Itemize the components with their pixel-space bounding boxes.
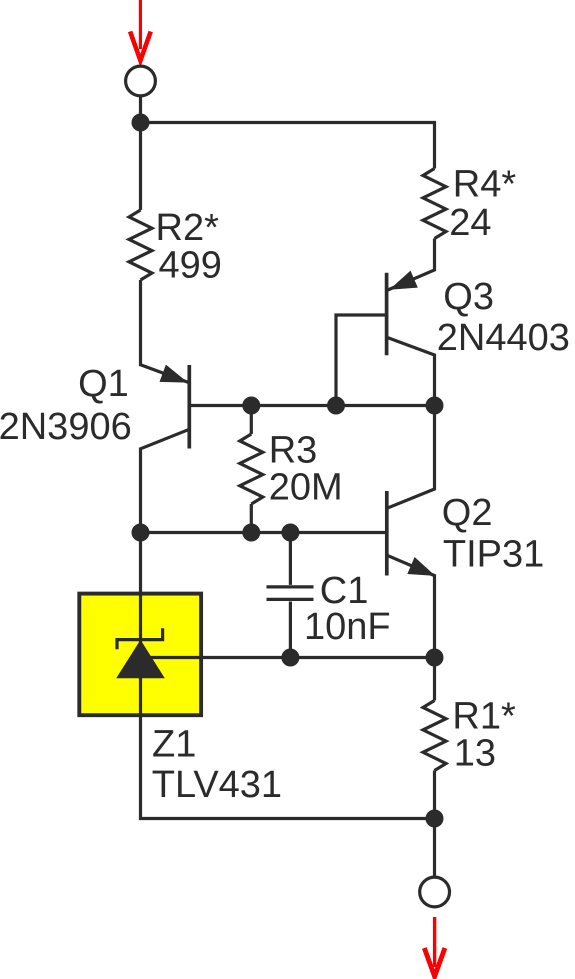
svg-text:Q1: Q1 [78,363,129,405]
svg-text:R4*: R4* [453,164,517,206]
svg-text:20M: 20M [269,466,343,508]
svg-text:2N3906: 2N3906 [0,406,132,448]
svg-text:R3: R3 [269,430,318,472]
svg-text:Q3: Q3 [443,276,494,318]
svg-text:13: 13 [454,732,496,774]
svg-text:R1*: R1* [452,696,516,738]
svg-text:Q2: Q2 [442,492,493,534]
svg-text:Z1: Z1 [152,723,196,765]
svg-text:2N4403: 2N4403 [437,317,570,359]
svg-text:24: 24 [449,202,491,244]
svg-text:10nF: 10nF [304,606,391,648]
svg-text:TIP31: TIP31 [443,534,544,576]
svg-text:499: 499 [159,244,222,286]
svg-text:TLV431: TLV431 [152,764,282,806]
svg-text:R2*: R2* [156,207,220,249]
